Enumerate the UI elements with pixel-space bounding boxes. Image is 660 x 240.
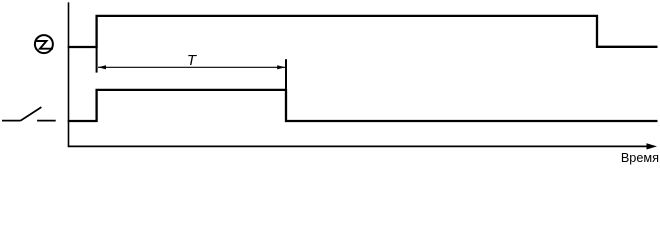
left dimension arrowhead [98, 65, 106, 69]
top waveform (relay output) [68, 16, 658, 47]
switch symbol: left lead [2, 120, 21, 122]
extension line below top waveform rising edge [96, 47, 98, 73]
svg-text:Время: Время [621, 151, 659, 165]
time axis arrowhead [647, 143, 658, 149]
right dimension arrowhead [277, 65, 285, 69]
timer output symbol: Z waveform inside circle [35, 41, 53, 49]
horizontal time axis [68, 145, 648, 147]
vertical axis [68, 2, 70, 146]
extension line above bottom waveform falling edge [285, 59, 287, 90]
dimension line T [98, 66, 285, 68]
switch symbol: lever [21, 107, 42, 121]
timer output symbol: circle [35, 35, 53, 53]
bottom waveform (input contact) [68, 90, 658, 121]
switch symbol: right contact dash [37, 120, 56, 122]
